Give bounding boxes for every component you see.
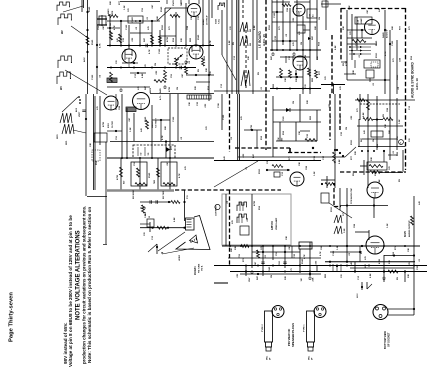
svg-text:FILTER: FILTER — [112, 121, 114, 128]
svg-text:L25: L25 — [293, 41, 295, 46]
svg-text:12BY7A: 12BY7A — [271, 221, 274, 230]
svg-text:B425: B425 — [159, 87, 162, 93]
svg-text:C84: C84 — [118, 105, 121, 110]
svg-text:1M: 1M — [271, 275, 273, 278]
svg-text:33K: 33K — [343, 26, 345, 30]
svg-text:6.8K: 6.8K — [335, 45, 337, 50]
svg-text:L.26: L.26 — [358, 20, 360, 24]
svg-text:270: 270 — [393, 58, 395, 62]
svg-text:4.5MC: 4.5MC — [360, 18, 363, 24]
svg-text:R151: R151 — [331, 206, 333, 212]
svg-text:10K: 10K — [330, 116, 332, 120]
svg-text:L25: L25 — [97, 105, 99, 110]
svg-text:120: 120 — [128, 8, 130, 12]
svg-text:120: 120 — [206, 126, 208, 130]
svg-text:56K: 56K — [389, 130, 391, 134]
svg-text:56K: 56K — [165, 126, 167, 130]
svg-text:4.7K: 4.7K — [384, 51, 387, 56]
svg-text:470K: 470K — [166, 36, 169, 42]
svg-text:.01: .01 — [246, 166, 248, 170]
svg-text:.005: .005 — [293, 17, 295, 22]
svg-text:NOTE VOLTAGE ALTERATIONS: NOTE VOLTAGE ALTERATIONS — [76, 230, 82, 320]
svg-text:R4: R4 — [109, 23, 112, 26]
svg-text:1.5K: 1.5K — [399, 119, 401, 124]
svg-text:L25: L25 — [340, 85, 342, 90]
svg-text:10: 10 — [149, 216, 151, 218]
svg-text:33K: 33K — [375, 172, 377, 176]
svg-text:.02: .02 — [398, 86, 400, 90]
svg-text:R47: R47 — [143, 37, 146, 42]
svg-text:T830: T830 — [154, 180, 156, 184]
svg-text:C84: C84 — [386, 107, 389, 112]
svg-text:L40: L40 — [363, 129, 366, 134]
svg-text:C55: C55 — [98, 25, 100, 30]
svg-text:R151: R151 — [259, 168, 261, 174]
svg-text:B10 T830: B10 T830 — [163, 191, 165, 199]
svg-text:R9: R9 — [198, 68, 200, 72]
svg-text:4P: 4P — [269, 357, 272, 360]
svg-text:22K: 22K — [313, 277, 315, 281]
svg-text:C12: C12 — [135, 73, 137, 78]
svg-text:W5: W5 — [250, 28, 252, 32]
svg-text:.005: .005 — [156, 70, 158, 75]
svg-text:R16: R16 — [283, 130, 285, 135]
svg-text:C84: C84 — [353, 223, 356, 228]
svg-text:10K: 10K — [189, 102, 191, 106]
svg-text:1.5K: 1.5K — [349, 5, 351, 10]
svg-text:6CZ5: 6CZ5 — [404, 230, 407, 237]
svg-text:C55: C55 — [142, 7, 144, 12]
svg-text:production changes for circuit: production changes for circuit variation… — [82, 206, 87, 364]
svg-text:W20: W20 — [57, 134, 59, 139]
svg-text:R77: R77 — [319, 70, 321, 75]
svg-text:1M: 1M — [319, 17, 321, 20]
svg-text:.02: .02 — [349, 252, 351, 256]
svg-text:R83: R83 — [325, 273, 327, 278]
svg-text:.005: .005 — [132, 37, 134, 42]
svg-text:C12: C12 — [358, 275, 360, 280]
svg-text:PIX: PIX — [112, 10, 114, 14]
svg-text:10K: 10K — [408, 248, 410, 252]
svg-text:1M: 1M — [155, 63, 157, 66]
svg-text:R83: R83 — [190, 37, 192, 42]
svg-text:.02: .02 — [136, 20, 138, 23]
svg-text:.005: .005 — [237, 273, 239, 278]
svg-text:C165: C165 — [223, 114, 225, 120]
svg-text:4P: 4P — [311, 357, 314, 360]
svg-text:C30: C30 — [198, 15, 200, 20]
svg-text:1.5K: 1.5K — [130, 127, 132, 132]
svg-text:L25: L25 — [241, 115, 243, 120]
svg-text:B152: B152 — [108, 122, 110, 128]
svg-text:L25: L25 — [232, 219, 234, 224]
svg-text:4.7K: 4.7K — [209, 40, 212, 45]
svg-text:R83: R83 — [310, 115, 312, 120]
svg-text:1ST PIX IF: 1ST PIX IF — [207, 14, 209, 25]
svg-text:33K: 33K — [389, 260, 391, 264]
svg-text:VIDEO AMP: VIDEO AMP — [275, 217, 278, 230]
svg-text:470K: 470K — [168, 86, 171, 92]
svg-text:.01: .01 — [147, 16, 149, 20]
svg-text:Note: This schematic is based: Note: This schematic is based on product… — [87, 207, 92, 363]
svg-text:10K: 10K — [286, 236, 288, 240]
svg-text:3AU6: 3AU6 — [382, 32, 385, 38]
svg-text:H.V. RECT: H.V. RECT — [156, 118, 158, 128]
svg-text:4.7K: 4.7K — [303, 254, 306, 259]
svg-text:.02: .02 — [231, 136, 233, 140]
svg-text:.01: .01 — [373, 82, 375, 86]
svg-text:C84: C84 — [286, 7, 289, 12]
svg-text:.01: .01 — [261, 86, 263, 90]
svg-text:10K: 10K — [90, 143, 92, 147]
svg-text:R47: R47 — [270, 55, 273, 60]
svg-text:R16: R16 — [261, 135, 263, 140]
svg-text:.01: .01 — [393, 150, 395, 154]
svg-text:6.8K: 6.8K — [379, 179, 381, 184]
svg-text:R9: R9 — [343, 62, 345, 66]
svg-text:C12: C12 — [234, 55, 236, 60]
svg-text:R77: R77 — [400, 25, 402, 30]
svg-text:R83: R83 — [312, 77, 314, 82]
svg-text:270: 270 — [357, 108, 359, 112]
svg-text:C12: C12 — [282, 171, 284, 176]
svg-text:R9: R9 — [353, 172, 355, 176]
svg-text:R151: R151 — [269, 24, 271, 30]
svg-text:470K: 470K — [253, 200, 256, 206]
svg-text:Voltage at pin 8 on 6BU8 to be: Voltage at pin 8 on 6BU8 to be 200V inst… — [68, 215, 73, 367]
svg-text:Y.25L: Y.25L — [219, 18, 221, 24]
svg-text:.047: .047 — [254, 261, 257, 266]
svg-text:R9: R9 — [383, 113, 385, 117]
svg-text:R83: R83 — [397, 151, 399, 156]
svg-text:270: 270 — [279, 26, 281, 30]
svg-text:C84: C84 — [305, 165, 308, 170]
svg-text:P210 AUDIO TAP: P210 AUDIO TAP — [350, 187, 353, 204]
svg-text:L40: L40 — [140, 127, 143, 132]
svg-text:4.7K: 4.7K — [99, 43, 102, 48]
svg-text:56K: 56K — [157, 16, 159, 20]
svg-text:C55: C55 — [116, 135, 118, 140]
svg-text:W3: W3 — [60, 86, 63, 90]
svg-text:.02: .02 — [227, 200, 229, 204]
svg-text:R47: R47 — [360, 137, 363, 142]
svg-text:4.7K: 4.7K — [319, 251, 322, 256]
svg-text:4.7K: 4.7K — [178, 173, 181, 178]
svg-text:1.5K: 1.5K — [337, 245, 339, 250]
svg-text:HL10: HL10 — [357, 294, 359, 298]
svg-text:33K: 33K — [235, 246, 237, 250]
svg-text:33K: 33K — [206, 68, 208, 72]
svg-text:1M: 1M — [301, 42, 303, 45]
svg-text:C165: C165 — [392, 40, 394, 46]
svg-text:.02: .02 — [100, 74, 102, 78]
svg-text:R140: R140 — [88, 6, 91, 12]
svg-text:.01: .01 — [265, 254, 267, 258]
svg-text:.005: .005 — [243, 153, 245, 158]
svg-text:102: 102 — [141, 153, 143, 156]
svg-text:L25: L25 — [310, 14, 312, 17]
svg-text:R47: R47 — [144, 85, 147, 90]
svg-text:.005: .005 — [205, 103, 207, 108]
svg-text:A.P.C. 16: A.P.C. 16 — [415, 78, 419, 90]
svg-text:1M: 1M — [177, 87, 179, 90]
svg-text:VID A: VID A — [201, 265, 204, 271]
svg-text:100: 100 — [144, 232, 146, 236]
svg-text:Page Thirty-seven: Page Thirty-seven — [9, 292, 15, 342]
svg-text:MOL: MOL — [267, 355, 269, 360]
svg-text:22K: 22K — [307, 100, 309, 104]
svg-text:.005: .005 — [247, 217, 249, 222]
svg-text:R9: R9 — [233, 41, 235, 45]
svg-text:C84: C84 — [399, 57, 402, 62]
svg-text:.02: .02 — [136, 26, 138, 30]
svg-text:R47: R47 — [248, 277, 251, 282]
svg-text:33K: 33K — [353, 70, 355, 74]
svg-text:R151: R151 — [376, 52, 378, 58]
svg-text:R77: R77 — [119, 0, 121, 5]
svg-text:R16: R16 — [411, 55, 413, 60]
svg-text:R9: R9 — [397, 276, 399, 280]
svg-text:M470: M470 — [149, 87, 152, 93]
svg-text:AUDIO OUTPUT: AUDIO OUTPUT — [408, 220, 411, 237]
svg-text:R77: R77 — [351, 155, 353, 160]
svg-text:1.5K: 1.5K — [293, 7, 295, 12]
svg-text:22K: 22K — [317, 56, 319, 60]
svg-text:R9: R9 — [399, 178, 401, 182]
svg-text:470K: 470K — [102, 121, 105, 127]
svg-text:270: 270 — [169, 26, 171, 30]
svg-text:6.8K: 6.8K — [254, 25, 256, 30]
svg-text:R16: R16 — [393, 251, 395, 256]
svg-text:R140: R140 — [375, 40, 378, 46]
svg-text:L25: L25 — [185, 165, 187, 170]
svg-text:W2: W2 — [61, 30, 64, 34]
svg-text:R140: R140 — [91, 39, 94, 45]
svg-text:TYPE 1: TYPE 1 — [304, 324, 306, 332]
svg-text:120: 120 — [389, 166, 391, 170]
svg-text:R1475: R1475 — [172, 0, 175, 6]
svg-text:L25: L25 — [365, 255, 367, 260]
svg-text:035: 035 — [148, 153, 150, 156]
svg-text:10K: 10K — [299, 162, 301, 166]
svg-text:270: 270 — [409, 26, 411, 30]
svg-text:22K: 22K — [296, 78, 298, 82]
svg-text:6.8K: 6.8K — [174, 217, 176, 222]
svg-text:ADJ: ADJ — [75, 108, 78, 112]
svg-text:R140: R140 — [160, 6, 163, 12]
svg-text:R140: R140 — [148, 172, 151, 178]
svg-text:C165: C165 — [159, 48, 161, 54]
svg-text:R151: R151 — [397, 74, 399, 80]
svg-text:56K: 56K — [392, 26, 394, 30]
svg-text:1.5K: 1.5K — [314, 171, 316, 176]
svg-text:1.5K: 1.5K — [387, 223, 389, 228]
svg-text:100: 100 — [210, 71, 212, 75]
svg-text:L40: L40 — [223, 155, 226, 160]
svg-text:.047: .047 — [181, 73, 184, 78]
svg-text:R16: R16 — [173, 37, 175, 42]
svg-text:6.8K: 6.8K — [142, 73, 144, 78]
svg-text:C12: C12 — [289, 55, 291, 60]
svg-text:L25: L25 — [148, 25, 150, 30]
svg-text:R83: R83 — [204, 55, 206, 60]
svg-text:1M: 1M — [301, 278, 303, 281]
svg-text:.047: .047 — [151, 4, 154, 9]
svg-text:120: 120 — [145, 64, 147, 68]
svg-text:33K: 33K — [371, 157, 373, 161]
svg-text:22K: 22K — [195, 86, 197, 90]
svg-text:120: 120 — [325, 76, 327, 80]
svg-text:C165: C165 — [92, 74, 94, 80]
svg-text:C30: C30 — [307, 133, 309, 138]
svg-text:270: 270 — [291, 268, 293, 272]
svg-text:100: 100 — [409, 138, 411, 142]
svg-text:33K: 33K — [408, 274, 410, 278]
svg-text:L40: L40 — [298, 30, 301, 35]
svg-text:.02: .02 — [181, 136, 183, 140]
svg-text:MOL: MOL — [309, 355, 311, 360]
svg-text:.005: .005 — [351, 115, 353, 120]
svg-text:100: 100 — [116, 60, 118, 64]
svg-text:x: x — [400, 140, 402, 144]
svg-text:1M: 1M — [346, 127, 348, 130]
svg-text:C30: C30 — [197, 101, 199, 106]
svg-text:R9: R9 — [258, 71, 260, 75]
svg-text:6CB6: 6CB6 — [216, 18, 218, 24]
svg-text:.047: .047 — [128, 117, 131, 122]
svg-text:R140: R140 — [197, 34, 200, 40]
svg-text:22K: 22K — [181, 38, 183, 42]
svg-text:C12: C12 — [323, 155, 325, 160]
svg-text:PIX TUBE: PIX TUBE — [199, 263, 201, 273]
svg-text:6CB6: 6CB6 — [203, 19, 205, 25]
svg-text:4.5: 4.5 — [312, 15, 315, 18]
svg-text:4.7K: 4.7K — [148, 49, 151, 54]
svg-text:R83: R83 — [145, 211, 147, 216]
svg-text:R47: R47 — [252, 153, 255, 158]
svg-text:R140: R140 — [268, 266, 271, 272]
svg-text:W6: W6 — [250, 42, 252, 46]
svg-text:C165: C165 — [173, 116, 175, 122]
svg-text:10K: 10K — [191, 16, 193, 20]
svg-text:1M: 1M — [373, 139, 375, 142]
svg-text:R77: R77 — [129, 63, 131, 68]
svg-text:R77: R77 — [171, 145, 173, 150]
svg-text:R140: R140 — [301, 258, 304, 264]
svg-text:6.8K: 6.8K — [339, 159, 341, 164]
svg-text:1.5K: 1.5K — [124, 5, 126, 10]
svg-text:SPEAKER PLUGS: SPEAKER PLUGS — [291, 323, 295, 347]
svg-text:C.6B: C.6B — [344, 228, 346, 233]
svg-text:200: 200 — [282, 138, 284, 141]
svg-text:22K: 22K — [385, 124, 387, 128]
svg-text:VERT: VERT — [79, 111, 81, 117]
svg-text:6.8K: 6.8K — [363, 112, 365, 117]
svg-text:100: 100 — [341, 274, 343, 278]
svg-text:C30: C30 — [341, 131, 343, 136]
svg-text:A.T.L.: A.T.L. — [159, 94, 162, 100]
svg-text:C55: C55 — [239, 253, 241, 258]
svg-text:270: 270 — [289, 156, 291, 160]
svg-text:6.8K: 6.8K — [229, 40, 231, 45]
svg-text:C165: C165 — [274, 12, 276, 18]
svg-text:TYPE 2: TYPE 2 — [262, 324, 264, 332]
svg-text:100: 100 — [305, 84, 307, 88]
svg-text:L25: L25 — [138, 85, 140, 90]
svg-text:.047: .047 — [366, 9, 369, 14]
svg-text:.047: .047 — [102, 25, 105, 30]
svg-text:C30: C30 — [314, 155, 316, 160]
svg-text:R16: R16 — [319, 41, 321, 46]
svg-text:W21: W21 — [66, 140, 68, 145]
svg-text:56K: 56K — [315, 26, 317, 30]
svg-text:784: 784 — [180, 2, 183, 6]
svg-text:R151: R151 — [162, 24, 164, 30]
svg-text:C30: C30 — [294, 253, 296, 258]
svg-text:C55: C55 — [171, 73, 173, 78]
svg-text:C30: C30 — [123, 37, 125, 42]
svg-text:56K: 56K — [365, 264, 367, 268]
svg-text:1M: 1M — [293, 101, 295, 104]
svg-text:R9: R9 — [361, 250, 363, 254]
svg-text:L40: L40 — [418, 200, 421, 205]
svg-text:33K: 33K — [248, 56, 250, 60]
svg-text:R16: R16 — [259, 205, 261, 210]
svg-text:OF SOCKET: OF SOCKET — [388, 332, 391, 347]
svg-text:4.7K: 4.7K — [113, 25, 116, 30]
svg-text:C120: C120 — [283, 116, 285, 121]
svg-text:B10 B20M: B10 B20M — [133, 190, 135, 199]
svg-text:R47: R47 — [311, 35, 314, 40]
svg-text:470K: 470K — [345, 60, 348, 66]
svg-text:A.P.C. 15: A.P.C. 15 — [262, 34, 266, 46]
svg-text:C12: C12 — [409, 105, 411, 110]
svg-text:56K: 56K — [231, 248, 233, 252]
svg-text:470K: 470K — [304, 54, 307, 60]
svg-text:.02: .02 — [189, 60, 191, 64]
svg-text:C165: C165 — [126, 24, 128, 30]
svg-text:B10: B10 — [124, 181, 126, 184]
svg-text:R151: R151 — [279, 260, 281, 266]
svg-text:C12: C12 — [152, 235, 154, 240]
svg-text:R83: R83 — [273, 83, 275, 88]
svg-text:.01: .01 — [419, 258, 421, 262]
svg-text:22K: 22K — [355, 151, 357, 155]
svg-text:P.11: P.11 — [187, 195, 189, 199]
svg-text:C12: C12 — [221, 83, 223, 88]
svg-text:C84: C84 — [186, 25, 189, 30]
svg-text:4.7K: 4.7K — [161, 135, 164, 140]
svg-text:C165: C165 — [333, 250, 335, 256]
svg-text:C1600: C1600 — [132, 17, 134, 22]
svg-text:C118: C118 — [218, 102, 220, 108]
svg-text:R47: R47 — [256, 275, 259, 280]
svg-text:MA15: MA15 — [107, 8, 110, 14]
svg-text:98V instead of 65V.: 98V instead of 65V. — [63, 322, 68, 364]
svg-text:21CEP4: 21CEP4 — [194, 266, 197, 275]
svg-text:120: 120 — [409, 262, 411, 266]
svg-text:R151: R151 — [351, 139, 353, 145]
svg-text:10K: 10K — [285, 78, 287, 82]
svg-text:470K: 470K — [378, 258, 381, 264]
svg-text:22K: 22K — [285, 276, 287, 280]
svg-text:470K: 470K — [116, 174, 119, 180]
svg-text:56K: 56K — [110, 1, 112, 5]
svg-text:6.8K: 6.8K — [370, 273, 372, 278]
svg-text:HORIZ: HORIZ — [179, 254, 181, 261]
svg-text:AGC: AGC — [83, 57, 86, 62]
svg-text:.02: .02 — [286, 33, 288, 37]
